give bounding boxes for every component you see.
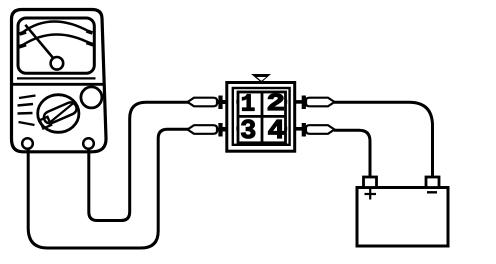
pin 2 terminal stub xyxy=(284,100,303,104)
indicator window xyxy=(81,87,102,108)
meter needle xyxy=(25,25,57,63)
meter display window xyxy=(18,18,94,73)
svg-text:3: 3 xyxy=(240,117,256,147)
pin 1 terminal stub xyxy=(219,100,240,104)
connector J1 cavity grid xyxy=(238,92,286,143)
battery positive label xyxy=(365,189,377,200)
polarity mark triangle xyxy=(251,74,271,83)
wire: pin 4 probe to battery positive post xyxy=(334,130,370,177)
svg-text:1: 1 xyxy=(241,91,255,118)
meter terminal A (left) xyxy=(22,138,33,149)
connector J1 inner shell xyxy=(233,88,290,145)
battery BT1 body xyxy=(357,188,448,247)
meter panel separator xyxy=(12,83,106,86)
meter needle pivot xyxy=(51,57,64,70)
svg-text:4: 4 xyxy=(267,117,285,147)
svg-text:2: 2 xyxy=(266,91,285,118)
battery positive post xyxy=(364,177,377,188)
probe tip P4 xyxy=(304,123,335,137)
range markings xyxy=(18,96,36,126)
battery negative label xyxy=(427,191,437,193)
meter scale arc upper xyxy=(20,22,93,34)
pin 4 terminal stub xyxy=(284,127,303,131)
knob handle xyxy=(38,101,79,129)
wire: meter left terminal to probe P3 xyxy=(28,129,188,248)
wire: pin 2 probe to battery negative post xyxy=(334,102,433,177)
rotary selector knob xyxy=(38,95,79,133)
connector J1 outer shell xyxy=(227,83,295,152)
battery negative post xyxy=(426,177,439,188)
probe tip P2 xyxy=(304,96,335,110)
meter scale arc lower xyxy=(19,34,94,46)
wire: meter right terminal to probe P1 xyxy=(89,102,189,220)
meter terminal B (right) xyxy=(83,138,94,149)
probe tip P1 xyxy=(188,96,228,110)
multimeter M1 body xyxy=(12,10,107,152)
pin 3 terminal stub xyxy=(219,127,240,131)
probe tip P3 xyxy=(188,123,228,137)
